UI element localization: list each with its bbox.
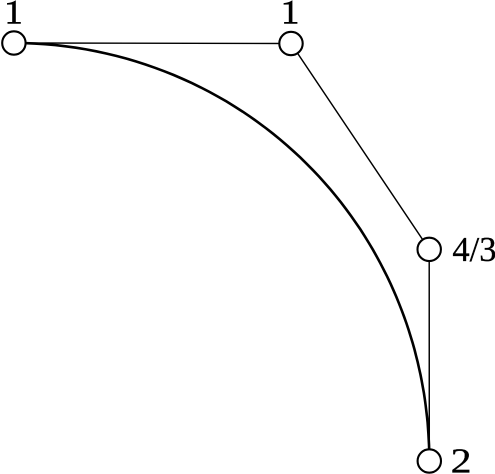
svg-text:4/3: 4/3 <box>452 231 495 269</box>
svg-text:2: 2 <box>451 443 472 474</box>
